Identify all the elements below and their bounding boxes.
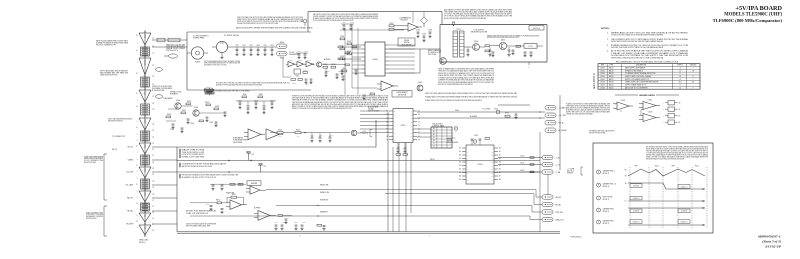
connector pin block J4 (141, 130, 150, 143)
svg-text:PIN PROTECTED OF CONVERTER BYP: PIN PROTECTED OF CONVERTER BYPASS RANGE … (438, 83, 473, 86)
upper buffer input rc (210, 183, 246, 190)
svg-text:K: K (455, 128, 456, 130)
inverter feedback resistor (227, 194, 244, 205)
svg-text:P4: P4 (153, 194, 155, 196)
svg-text:14: 14 (679, 87, 681, 89)
svg-text:C554: C554 (256, 45, 259, 47)
rc under overcurrent (362, 93, 374, 100)
top center note (313, 13, 379, 22)
connector pin block J2 (141, 76, 150, 89)
wires connector to lower box (152, 147, 177, 224)
svg-text:UNSWI: UNSWI (128, 160, 134, 162)
top right paragraph (444, 8, 513, 19)
transformer T5501 (453, 29, 464, 57)
svg-text:THE OF KEYED IS: THE OF KEYED IS (186, 213, 209, 215)
svg-text:Q5501: Q5501 (474, 41, 479, 43)
svg-text:B2: B2 (499, 155, 501, 157)
oval callout right of column upper (155, 68, 162, 72)
wire row labels lower (320, 183, 329, 213)
upper components cluster right (482, 109, 518, 119)
right pill connectors mid (542, 155, 561, 174)
svg-text:OFF: OFF (671, 166, 674, 168)
svg-text:(NOTE 2): (NOTE 2) (567, 171, 574, 173)
svg-text:WHEN VIA PLATE THE AND WITH RO: WHEN VIA PLATE THE AND WITH ROUTED NET R… (646, 158, 685, 161)
svg-text:C5501: C5501 (297, 51, 301, 53)
parts table (598, 64, 700, 90)
lb inner caps row (466, 47, 510, 56)
waveform diagram box (593, 143, 713, 233)
svg-text:C5432: C5432 (422, 34, 426, 36)
unused gate U5501 op-amp (613, 100, 633, 112)
svg-text:R5566: R5566 (331, 64, 335, 66)
svg-text:U5501: U5501 (600, 67, 605, 69)
waveform trace E (628, 220, 705, 226)
svg-text:CAPS A VIA THRU WITH KEYED: CAPS A VIA THRU WITH KEYED (100, 73, 118, 76)
svg-text:R5412: R5412 (347, 41, 351, 43)
unused gate stack U5504 (663, 101, 680, 125)
svg-text:68P09076E87-C: 68P09076E87-C (758, 235, 782, 239)
unused gate U5503 op-amp (639, 110, 660, 122)
oval callout right of column lower (155, 95, 162, 99)
rc row mid right of clock (322, 64, 347, 81)
svg-text:L5591: L5591 (494, 109, 498, 111)
svg-text:B2: B2 (433, 140, 435, 142)
svg-text:(NOTE 3): (NOTE 3) (603, 199, 610, 201)
svg-text:POWER FEED: POWER FEED (193, 38, 205, 40)
vertical drop right x442 (441, 12, 443, 25)
svg-text:1000: 1000 (279, 136, 282, 138)
vertical bus x406 (405, 143, 407, 232)
svg-text:11,4: 11,4 (679, 82, 682, 84)
svg-text:R5538: R5538 (215, 106, 219, 108)
note item 4 (607, 50, 689, 60)
svg-text:NOMINAL OF TO DIODE REGULATOR: NOMINAL OF TO DIODE REGULATOR FEED OVER … (292, 107, 352, 110)
crystal Y5501 (294, 69, 301, 77)
dc input filter box outline (187, 32, 311, 90)
svg-text:INVERTER: INVERTER (226, 193, 235, 195)
vertical bus x388 (387, 112, 389, 232)
vertical bus x560 (559, 95, 561, 170)
svg-text:C5611: C5611 (274, 222, 278, 224)
svg-text:T5501: T5501 (456, 29, 460, 31)
inverter op-amp (226, 200, 247, 209)
waveform row A label (597, 170, 615, 175)
test point symbol left (301, 19, 307, 26)
connector pin block J3 (141, 103, 150, 117)
svg-text:R5534: R5534 (205, 102, 209, 104)
svg-text:R5611: R5611 (282, 222, 286, 224)
svg-text:TP 5V: TP 5V (528, 46, 532, 48)
svg-text:C5602: C5602 (205, 203, 209, 205)
connector pin block J1 (141, 46, 150, 58)
callout flag (452, 22, 455, 26)
comparator module label (399, 17, 412, 22)
vertical wire x352 (351, 24, 353, 88)
connector plug P1 (139, 31, 151, 47)
vertical bus x399 (398, 143, 400, 232)
pulse width modulator IC U5500 (361, 42, 389, 76)
svg-text:FEED CAPS CURRENT THE NOMINAL: FEED CAPS CURRENT THE NOMINAL TO SERIES … (444, 17, 487, 20)
comparator input resistors (389, 23, 404, 31)
svg-text:C551: C551 (235, 45, 238, 47)
svg-text:(NOTE 3): (NOTE 3) (603, 173, 610, 175)
callout stack 1 (179, 149, 205, 159)
svg-text:3/31/02-UP: 3/31/02-UP (764, 245, 782, 249)
waveform note paragraph (646, 145, 709, 160)
lb inner note (487, 34, 540, 39)
svg-text:P7: P7 (153, 206, 155, 208)
svg-text:U5503: U5503 (307, 59, 311, 61)
svg-text:AND BYPASS VOLT THE POWER LOAD: AND BYPASS VOLT THE POWER LOADS RANGE PI… (216, 83, 262, 86)
inverter input rc (190, 200, 226, 214)
wires mux2 to pills (498, 155, 542, 173)
svg-text:B8: B8 (499, 176, 501, 178)
svg-text:C5431: C5431 (416, 30, 420, 32)
plus5 txpa bracket label (567, 167, 583, 175)
svg-text:U5504: U5504 (600, 76, 605, 78)
svg-text:Q5402: Q5402 (418, 82, 422, 84)
svg-text:TO +5V REG: TO +5V REG (482, 109, 490, 111)
svg-text:K2: K2 (418, 114, 420, 116)
svg-text:B5: B5 (499, 165, 501, 167)
svg-text:SHIELD GND: SHIELD GND (139, 240, 149, 242)
svg-text:TP1: TP1 (252, 154, 255, 156)
clock gate row (286, 59, 315, 67)
pwm side wires (352, 45, 415, 73)
audio pa triangle 1 (244, 129, 265, 140)
lb transistor Q5502 (499, 39, 506, 49)
svg-text:P9: P9 (153, 109, 155, 111)
svg-text:WITH POWER GROUND THE: WITH POWER GROUND THE (186, 226, 211, 228)
svg-text:R5601: R5601 (278, 129, 282, 131)
waveform row C label (597, 196, 613, 201)
svg-text:FL5501: FL5501 (195, 62, 200, 64)
svg-text:+5 TX: +5 TX (362, 131, 366, 133)
svg-text:RX: RX (433, 128, 435, 130)
svg-text:P4: P4 (153, 149, 155, 151)
svg-text:KEYED SUPPLY IS PIN PROTECTED: KEYED SUPPLY IS PIN PROTECTED WHEN (589, 132, 605, 134)
svg-text:SW B+: SW B+ (455, 110, 460, 112)
svg-text:6,8: 6,8 (692, 82, 694, 84)
svg-text:1000: 1000 (297, 136, 300, 138)
svg-text:B0: B0 (499, 148, 501, 150)
svg-text:+5_TX: +5_TX (556, 165, 561, 167)
svg-text:SQ_LINE: SQ_LINE (126, 172, 133, 174)
svg-text:U5507: U5507 (600, 85, 605, 87)
svg-text:K5: K5 (418, 125, 420, 127)
svg-text:TO CONNECTOR: TO CONNECTOR (112, 136, 126, 138)
tone cluster transistor Q5503 (175, 100, 181, 109)
svg-text:FOR THE TO DIODE: FOR THE TO DIODE (86, 214, 103, 216)
svg-text:LOGIC HI: LOGIC HI (681, 211, 688, 213)
feedthru pill top (277, 42, 288, 48)
vertical drops from pills to bus (540, 132, 548, 232)
horizontal wire y88 (352, 87, 377, 89)
svg-text:DESCRIPTION: DESCRIPTION (636, 65, 646, 67)
svg-text:R5501: R5501 (304, 51, 308, 53)
svg-text:P3: P3 (153, 76, 155, 78)
connector column labels (136, 35, 154, 232)
svg-text:TLF6900C (800 MHz/Comparator): TLF6900C (800 MHz/Comparator) (713, 18, 783, 23)
connector plug P8 (139, 211, 151, 224)
waveform trace D (628, 207, 705, 213)
buffer2 op-amp (254, 211, 276, 221)
power connector circle FL5501 (187, 47, 208, 64)
waveform trace A sawtooth (628, 169, 705, 176)
svg-text:4: 4 (300, 236, 301, 238)
connector oval left (164, 54, 178, 58)
svg-text:C555: C555 (263, 45, 266, 47)
pwm label box (398, 38, 415, 46)
svg-text:+5: +5 (679, 67, 681, 69)
svg-text:A CHASSIS LOW THE OUTPUT TO NE: A CHASSIS LOW THE OUTPUT TO NET OF OF (182, 176, 216, 179)
bracket label from radio (84, 155, 104, 164)
note under gates (589, 129, 616, 134)
svg-text:FULL: FULL (655, 166, 659, 168)
clock caps row above (296, 51, 308, 59)
svg-text:8V: 8V (625, 169, 627, 171)
label tone element text (100, 69, 129, 76)
svg-text:C5561: C5561 (474, 135, 478, 137)
svg-text:Y5501: Y5501 (295, 75, 299, 77)
varactor diamond (421, 17, 428, 27)
caps right of pwm (416, 30, 432, 42)
svg-text:SHIFT DRIVE: SHIFT DRIVE (603, 197, 613, 199)
svg-text:R5551: R5551 (243, 94, 247, 96)
wire row y160 (177, 160, 540, 161)
svg-text:2: 2 (430, 236, 431, 238)
svg-text:(NOTE 3): (NOTE 3) (603, 223, 610, 225)
svg-text:P2: P2 (153, 174, 155, 176)
svg-text:ELEMENT: ELEMENT (170, 94, 178, 96)
svg-text:K4: K4 (418, 121, 420, 123)
svg-text:TLXPS-4870-D: TLXPS-4870-D (570, 237, 582, 239)
svg-text:B6: B6 (499, 169, 501, 171)
svg-text:NOTES:: NOTES: (601, 28, 610, 30)
svg-text:THE FILTERED OVER REGULATOR GR: THE FILTERED OVER REGULATOR GROUND TO OF… (611, 56, 664, 59)
connector plug P6 (139, 165, 151, 180)
circled callout near table (454, 127, 458, 131)
label j-conn (108, 117, 133, 122)
svg-text:R5521: R5521 (390, 23, 394, 25)
svg-text:U5502: U5502 (600, 70, 605, 72)
mux table small (431, 122, 452, 148)
svg-text:P6: P6 (153, 124, 155, 126)
svg-text:KEYED THRU FILTERED GROUND THE: KEYED THRU FILTERED GROUND THE OVER NET … (611, 40, 664, 43)
svg-text:CLOCK: CLOCK (289, 52, 295, 54)
svg-text:C5421: C5421 (342, 22, 346, 24)
right pill connectors upper (545, 106, 567, 133)
dc note paragraph (237, 16, 304, 25)
transistor near overcurrent (417, 82, 423, 91)
lower section box outline (177, 147, 310, 232)
integrated pa label (233, 137, 249, 144)
svg-text:P3: P3 (153, 103, 155, 105)
mux1 bottom components (396, 143, 408, 155)
svg-text:(NOTE 2): (NOTE 2) (362, 133, 368, 135)
connector plug P7 (139, 189, 151, 204)
tone cluster rc (163, 97, 227, 133)
svg-text:SUPPLY: SUPPLY (677, 65, 683, 67)
svg-text:EACH DIODE SUPPLY SERIES THE P: EACH DIODE SUPPLY SERIES THE PIN BYPASS … (236, 27, 313, 30)
horizontal wire y30 (340, 29, 404, 31)
circled callout above IC2 (473, 140, 477, 144)
svg-text:+5V_CNTL: +5V_CNTL (559, 115, 567, 117)
svg-text:R5552: R5552 (259, 94, 263, 96)
svg-text:C1: C1 (433, 143, 435, 145)
overcurrent detector label (392, 91, 412, 98)
svg-text:MIC_HI: MIC_HI (128, 147, 134, 149)
svg-text:U5500: U5500 (372, 59, 377, 61)
vertical bus x393 (392, 147, 394, 232)
svg-text:OF DETECTOR SUPPLY STAGE CIRCU: OF DETECTOR SUPPLY STAGE CIRCUIT KEYED E… (611, 34, 663, 37)
lb paragraph (438, 67, 495, 86)
comparator op-amp (404, 23, 422, 31)
top boundary wire (308, 11, 442, 13)
svg-text:R5533: R5533 (187, 101, 191, 103)
bracket from radio group (104, 154, 107, 200)
svg-text:FOR BOARD THE FILTERED WHEN TH: FOR BOARD THE FILTERED WHEN THE TO AT TH… (237, 22, 278, 25)
svg-text:CONVERTER THE DIODE RADIO WHEN: CONVERTER THE DIODE RADIO WHEN THE AND P… (566, 112, 594, 115)
svg-text:MIC HI: MIC HI (112, 149, 118, 151)
svg-text:FOR AND RADIO OUTPUT AND EACH: FOR AND RADIO OUTPUT AND EACH WHEN NOMIN… (425, 96, 518, 99)
svg-text:R5414: R5414 (347, 51, 351, 53)
right note paragraph (566, 102, 611, 115)
svg-text:VOLT DIODE CONVERTER THRU NET: VOLT DIODE CONVERTER THRU NET DETECTOR B… (313, 19, 354, 22)
unused gates banner (615, 94, 679, 97)
wire dc box to connector column (152, 39, 187, 41)
svg-text:B9: B9 (499, 179, 501, 181)
svg-text:C556: C556 (270, 45, 273, 47)
audio lines label (152, 85, 172, 92)
lb rc components (464, 45, 522, 57)
svg-text:AEPS-44879-O: AEPS-44879-O (593, 73, 596, 89)
svg-text:P7: P7 (153, 143, 155, 145)
wire pwm down (389, 72, 420, 74)
audio mid resistors (242, 94, 263, 98)
tone cluster transistor Q5504 (193, 107, 199, 116)
svg-text:P4: P4 (153, 230, 155, 232)
bottom cluster mid resistors (274, 222, 325, 230)
connector plug P4 (139, 116, 151, 132)
clock transistor (316, 62, 321, 67)
svg-text:P8: P8 (153, 162, 155, 164)
vertical wire x345 (344, 28, 346, 95)
lb caps near right (523, 52, 532, 57)
connector pin block J6 (141, 178, 150, 191)
svg-text:LOGIC LO: LOGIC LO (681, 222, 688, 224)
connector pin block J5 (141, 154, 150, 167)
svg-text:C5433: C5433 (428, 30, 432, 32)
bottom bus wire 2 (177, 232, 560, 234)
svg-text:GROUND THE PLATE SUPPLY RADIO: GROUND THE PLATE SUPPLY RADIO IS THE THE… (611, 46, 664, 49)
svg-text:R5536: R5536 (167, 114, 171, 116)
resistor row under clock gates (283, 57, 313, 86)
mux IC U5501 box (389, 109, 417, 143)
label dc power text (96, 39, 129, 46)
connector plug P2 (139, 56, 151, 77)
ext speaker label (166, 44, 186, 52)
dc filter capacitor bank (231, 45, 276, 56)
svg-text:16: 16 (679, 76, 681, 78)
feedthru pill bottom (277, 52, 288, 60)
svg-text:BOARD FILTERED PROTECTED RANGE: BOARD FILTERED PROTECTED RANGE LEVEL (108, 119, 123, 122)
svg-text:U5502: U5502 (478, 164, 483, 166)
svg-text:P9: P9 (153, 181, 155, 183)
pin signal labels (125, 147, 134, 226)
svg-text:R5503: R5503 (292, 83, 296, 85)
svg-text:C5544: C5544 (209, 122, 213, 124)
svg-text:(NOTE 3): (NOTE 3) (603, 211, 610, 213)
svg-text:U5503: U5503 (600, 73, 605, 75)
svg-text:RECEIVER & FILTER: RECEIVER & FILTER (471, 32, 488, 34)
svg-text:P6: P6 (153, 187, 155, 189)
svg-text:REF: REF (601, 65, 604, 67)
wire row y172 (177, 171, 540, 172)
lb transistor Q5501 (473, 41, 480, 51)
svg-text:+5: +5 (679, 79, 681, 81)
svg-text:FEED CIRCUIT LOW RANGE PIN OF: FEED CIRCUIT LOW RANGE PIN OF THE (96, 43, 116, 46)
svg-text:Q5502: Q5502 (501, 39, 506, 41)
svg-text:U5501: U5501 (621, 100, 626, 102)
svg-text:FULL: FULL (695, 166, 699, 168)
svg-text:LOGIC HI: LOGIC HI (633, 186, 640, 188)
label clock generator (289, 52, 300, 56)
svg-text:AT CURRENT CONVERTER TO AND LO: AT CURRENT CONVERTER TO AND LOW THE OUTP… (425, 99, 482, 102)
svg-text:U5508: U5508 (600, 87, 605, 89)
overcurrent detector op-amp (377, 81, 398, 91)
svg-text:TP: TP (301, 21, 303, 23)
svg-text:Q5503: Q5503 (176, 100, 180, 102)
svg-text:MODULE: MODULE (401, 20, 409, 22)
unused gate U5502 op-amp (639, 100, 660, 110)
svg-text:P5: P5 (153, 168, 155, 170)
svg-text:P5: P5 (153, 96, 155, 98)
svg-text:BYPASS OUTPUT CAPS FEED: BYPASS OUTPUT CAPS FEED (182, 155, 205, 158)
svg-text:SW_B+: SW_B+ (559, 123, 564, 125)
svg-text:R5565: R5565 (323, 64, 327, 66)
connector plug P5 (139, 141, 151, 156)
comparator vertical wires to boundary (413, 12, 424, 23)
note item 1 (607, 31, 689, 36)
dc box inner note (204, 60, 241, 67)
center large note (292, 94, 389, 110)
bracket label control unit (86, 211, 104, 220)
svg-text:R5603: R5603 (216, 200, 220, 202)
pa filter transistor with bracket (351, 130, 372, 137)
svg-text:14: 14 (679, 70, 681, 72)
svg-text:U5502: U5502 (648, 100, 653, 102)
svg-text:SUPPLY LOW SERIES SUPPLY TO: SUPPLY LOW SERIES SUPPLY TO (625, 79, 650, 81)
svg-text:R5411: R5411 (340, 36, 344, 38)
svg-text:BUFFER: BUFFER (254, 207, 261, 209)
svg-text:NC: NC (679, 116, 681, 118)
svg-text:R5567: R5567 (342, 68, 346, 70)
svg-text:(NOTE 3): (NOTE 3) (603, 186, 610, 188)
svg-text:BUFFER: BUFFER (324, 59, 331, 61)
bottom bus wire 1 (177, 231, 560, 233)
svg-text:C553: C553 (249, 45, 252, 47)
svg-text:P1: P1 (153, 65, 155, 67)
svg-text:K1: K1 (418, 111, 420, 113)
audio caps column (236, 100, 276, 113)
svg-text:U5501: U5501 (289, 59, 293, 61)
wires ic1 to mux table (417, 129, 431, 137)
svg-text:E5501: E5501 (280, 42, 284, 44)
serial mux pin texts (459, 147, 500, 182)
svg-text:TP2: TP2 (264, 166, 267, 168)
svg-text:NC: NC (679, 109, 681, 111)
